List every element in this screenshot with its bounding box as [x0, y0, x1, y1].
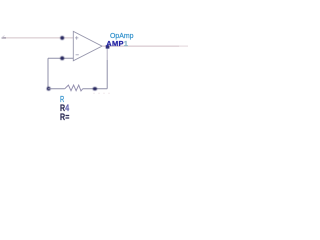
- label: R4 (reference designator): [60, 104, 69, 113]
- op-amp minus input marking: [76, 54, 79, 56]
- resistor R4 zigzag body: [65, 85, 83, 91]
- node: output junction pad square: [106, 45, 110, 48]
- wire: output net fading tail at right edge: [179, 45, 188, 47]
- label: R (resistor name): [60, 95, 64, 103]
- label: AMP1 (reference designator): [106, 40, 128, 48]
- wire: faint residue dashes under bottom wire: [93, 92, 110, 94]
- wire: resistor right lead: [83, 88, 107, 90]
- wire: input terminal arrow tick: [2, 36, 5, 38]
- wire: resistor left lead: [48, 88, 65, 90]
- wire: output net to right edge: [102, 45, 179, 47]
- op-amp U1 (AMP1) triangle body: [73, 31, 102, 60]
- node: dot at resistor left pin: [47, 87, 51, 91]
- wire: feedback left vertical: [47, 58, 49, 88]
- node: junction dot on non-inverting input: [60, 36, 64, 40]
- wire: feedback right vertical up to output: [106, 60, 108, 89]
- wire: non-inverting input net (left horizontal): [2, 37, 74, 39]
- node: dot at resistor right pin: [93, 87, 97, 91]
- wire: feedback right vertical upper (fainter): [106, 46, 108, 60]
- wire: input port stub tip: [2, 37, 7, 39]
- node: junction dot on inverting input wire: [60, 56, 64, 60]
- op-amp plus input marking: [75, 36, 78, 39]
- label: R= (value): [60, 113, 69, 122]
- wire: inverting input feedback segment (horizontal): [48, 57, 73, 59]
- label: OpAmp (part type): [110, 32, 134, 40]
